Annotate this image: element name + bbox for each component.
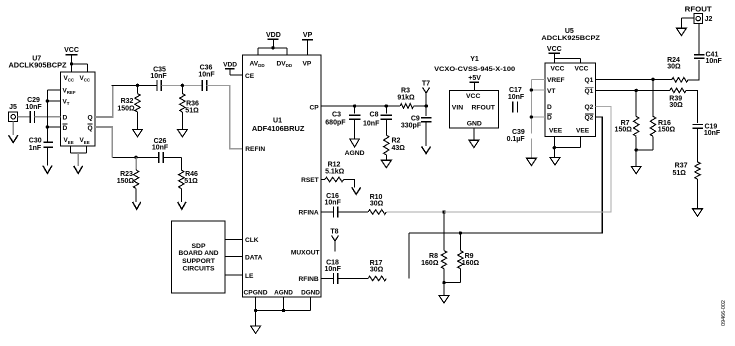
svg-text:5.1kΩ: 5.1kΩ	[325, 169, 345, 176]
svg-text:DATA: DATA	[245, 254, 263, 261]
svg-text:VEE: VEE	[549, 127, 563, 134]
svg-text:VDD: VDD	[266, 32, 281, 39]
svg-text:0.1µF: 0.1µF	[507, 136, 526, 143]
svg-text:VCC: VCC	[551, 65, 565, 72]
svg-text:U5: U5	[565, 28, 574, 35]
svg-text:VDD: VDD	[223, 62, 237, 69]
svg-text:D: D	[547, 104, 552, 111]
svg-text:GND: GND	[467, 121, 482, 128]
svg-text:R23: R23	[120, 171, 133, 178]
svg-text:150Ω: 150Ω	[117, 105, 135, 112]
svg-text:10nF: 10nF	[704, 130, 721, 137]
svg-text:R2: R2	[392, 138, 401, 145]
svg-text:SUPPORT: SUPPORT	[182, 258, 216, 265]
svg-text:330pF: 330pF	[401, 122, 422, 129]
svg-text:RFINA: RFINA	[299, 210, 319, 217]
svg-text:DGND: DGND	[301, 290, 320, 297]
svg-text:10nF: 10nF	[508, 94, 525, 101]
svg-text:VCC: VCC	[64, 47, 79, 54]
svg-text:10nF: 10nF	[25, 104, 42, 111]
svg-text:VCC: VCC	[547, 46, 562, 53]
svg-text:C30: C30	[29, 138, 42, 145]
svg-text:MUXOUT: MUXOUT	[291, 249, 320, 256]
svg-text:U7: U7	[32, 55, 41, 62]
svg-text:150Ω: 150Ω	[615, 126, 633, 133]
svg-text:10nF: 10nF	[325, 199, 342, 206]
svg-text:43Ω: 43Ω	[392, 145, 406, 152]
svg-text:CLK: CLK	[245, 237, 259, 244]
svg-text:Y1: Y1	[470, 56, 479, 63]
svg-text:VP: VP	[303, 60, 312, 67]
svg-text:C17: C17	[509, 87, 522, 94]
svg-text:Q1: Q1	[585, 77, 594, 84]
svg-text:VP: VP	[303, 32, 313, 39]
svg-text:Q: Q	[87, 115, 92, 122]
svg-text:C3: C3	[332, 112, 341, 119]
svg-text:ADCLK905BCPZ: ADCLK905BCPZ	[9, 63, 68, 70]
svg-text:RFOUT: RFOUT	[471, 105, 495, 112]
svg-text:C36: C36	[200, 65, 213, 72]
svg-text:C39: C39	[512, 129, 525, 136]
svg-text:R37: R37	[675, 162, 688, 169]
svg-text:680pF: 680pF	[325, 119, 346, 126]
svg-text:VT: VT	[547, 88, 555, 95]
svg-text:LE: LE	[245, 273, 254, 280]
svg-text:CP: CP	[310, 104, 320, 111]
svg-text:VCXO-CVSS-945-X-100: VCXO-CVSS-945-X-100	[434, 66, 515, 73]
svg-text:R32: R32	[121, 98, 134, 105]
svg-text:SDP: SDP	[192, 243, 206, 250]
svg-text:160Ω: 160Ω	[421, 260, 439, 267]
svg-text:RFOUT: RFOUT	[685, 7, 713, 14]
svg-text:VEE: VEE	[576, 127, 590, 134]
svg-text:51Ω: 51Ω	[184, 178, 198, 185]
svg-text:VREF: VREF	[547, 77, 565, 84]
svg-text:T7: T7	[422, 81, 430, 88]
svg-text:CPGND: CPGND	[244, 290, 268, 297]
svg-text:Q1: Q1	[585, 88, 594, 95]
svg-text:CIRCUITS: CIRCUITS	[182, 265, 215, 272]
svg-text:AGND: AGND	[274, 290, 293, 297]
svg-text:J5: J5	[9, 104, 17, 111]
svg-text:30Ω: 30Ω	[667, 64, 681, 71]
svg-text:VCC: VCC	[575, 65, 589, 72]
svg-text:R46: R46	[185, 171, 198, 178]
svg-text:1nF: 1nF	[29, 145, 42, 152]
svg-text:BOARD AND: BOARD AND	[179, 250, 219, 257]
svg-text:C29: C29	[27, 97, 40, 104]
svg-text:Q2: Q2	[585, 115, 594, 122]
svg-text:RSET: RSET	[301, 177, 319, 184]
svg-text:ADF4106BRUZ: ADF4106BRUZ	[252, 126, 305, 133]
svg-text:D: D	[63, 125, 68, 132]
svg-text:150Ω: 150Ω	[117, 178, 135, 185]
svg-text:30Ω: 30Ω	[669, 102, 683, 109]
svg-text:+5V: +5V	[468, 75, 481, 82]
svg-text:160Ω: 160Ω	[462, 260, 480, 267]
svg-text:10nF: 10nF	[152, 145, 169, 152]
svg-text:51Ω: 51Ω	[672, 170, 686, 177]
svg-text:30Ω: 30Ω	[370, 201, 384, 208]
svg-text:10nF: 10nF	[706, 58, 723, 65]
svg-text:10nF: 10nF	[198, 72, 215, 79]
svg-text:51Ω: 51Ω	[185, 108, 199, 115]
svg-text:VCC: VCC	[466, 93, 480, 100]
svg-text:R12: R12	[328, 161, 341, 168]
svg-text:150Ω: 150Ω	[658, 126, 676, 133]
svg-text:Q: Q	[87, 125, 92, 132]
svg-text:D: D	[63, 115, 68, 122]
svg-text:RFINB: RFINB	[299, 276, 319, 283]
svg-text:CE: CE	[245, 73, 255, 80]
svg-text:ADCLK925BCPZ: ADCLK925BCPZ	[541, 35, 600, 42]
svg-text:R36: R36	[186, 100, 199, 107]
svg-text:D: D	[547, 115, 552, 122]
svg-text:J2: J2	[705, 16, 713, 23]
svg-text:30Ω: 30Ω	[370, 267, 384, 274]
svg-text:C9: C9	[411, 115, 420, 122]
svg-text:10nF: 10nF	[325, 266, 342, 273]
svg-text:10nF: 10nF	[150, 73, 167, 80]
svg-text:91kΩ: 91kΩ	[397, 94, 415, 101]
svg-text:09466-002: 09466-002	[721, 300, 727, 326]
svg-text:AGND: AGND	[345, 150, 365, 157]
svg-text:VIN: VIN	[452, 105, 463, 112]
svg-text:T8: T8	[330, 229, 338, 236]
svg-text:U1: U1	[273, 117, 282, 124]
svg-text:REFIN: REFIN	[245, 146, 265, 153]
svg-text:Q2: Q2	[585, 104, 594, 111]
svg-text:10nF: 10nF	[363, 120, 380, 127]
svg-text:C8: C8	[370, 112, 379, 119]
